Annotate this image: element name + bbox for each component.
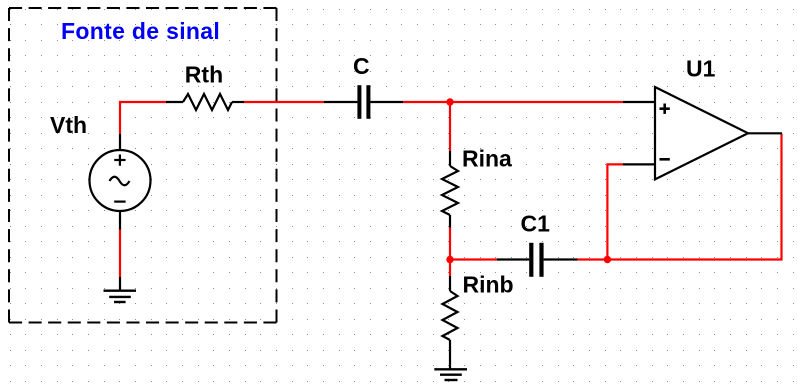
wire C to op-amp noninverting input	[403, 101, 623, 103]
label Rth	[185, 62, 223, 88]
resistor Rth	[166, 94, 244, 110]
svg-text:U1: U1	[686, 56, 716, 82]
capacitor C1	[497, 243, 577, 277]
ground (Rinb)	[434, 369, 467, 380]
label Rina	[462, 146, 512, 172]
wire node F up to inverting input	[606, 164, 608, 260]
capacitor C	[324, 85, 403, 119]
label Rinb	[463, 272, 514, 298]
wire output vertical drop	[780, 134, 782, 261]
wire Vth bottom to ground	[119, 229, 121, 277]
op-amp U1	[623, 87, 782, 179]
ground (source)	[104, 277, 137, 302]
voltage source Vth	[90, 134, 151, 230]
junction node A	[446, 98, 453, 105]
svg-text:Rina: Rina	[462, 146, 512, 172]
wire Rina bottom to node B	[449, 227, 451, 260]
signal source enclosure dashed box	[9, 8, 277, 323]
wire Vth top to Rth (horizontal)	[119, 101, 167, 103]
resistor Rina	[442, 151, 458, 228]
wire Rth to C	[244, 101, 324, 103]
wire node F to output drop (bottom horizontal)	[607, 258, 782, 260]
label C1	[521, 211, 551, 237]
svg-text:Rth: Rth	[185, 62, 223, 88]
label "Fonte de sinal"	[61, 18, 220, 44]
wire C1 to node F	[577, 258, 608, 260]
svg-text:Rinb: Rinb	[463, 272, 514, 298]
junction node F	[604, 256, 611, 263]
label C	[353, 53, 370, 79]
svg-text:Vth: Vth	[50, 112, 87, 138]
resistor Rinb	[443, 276, 458, 369]
wire inverting input horizontal stub	[606, 163, 623, 165]
label U1	[686, 56, 716, 82]
wire node A down to Rina	[449, 102, 451, 151]
label Vth	[50, 112, 87, 138]
svg-text:C: C	[353, 53, 370, 79]
svg-text:C1: C1	[521, 211, 551, 237]
junction node B	[446, 256, 453, 263]
wire node B down to Rinb	[449, 259, 451, 276]
wire Vth top vertical	[119, 101, 121, 134]
wire node B to C1	[450, 258, 497, 260]
svg-text:Fonte de sinal: Fonte de sinal	[61, 18, 220, 44]
